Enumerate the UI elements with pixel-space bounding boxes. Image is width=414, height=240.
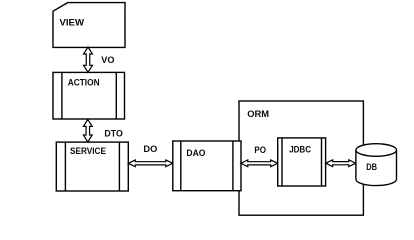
label DB: [366, 162, 377, 173]
label DTO: [104, 128, 122, 139]
svg-text:ORM: ORM: [247, 109, 269, 120]
box ORM: [239, 101, 363, 215]
label VO: [101, 55, 114, 66]
svg-text:DTO: DTO: [104, 128, 122, 139]
svg-text:VIEW: VIEW: [60, 17, 85, 28]
label DAO: [186, 148, 205, 159]
box DAO (predefined process, overlaps ORM left edge): [173, 141, 241, 191]
cylinder DB (database, overlaps ORM right edge): [356, 144, 397, 186]
label ORM: [247, 109, 269, 120]
svg-text:DAO: DAO: [186, 148, 205, 159]
svg-text:VO: VO: [101, 55, 114, 66]
arrow PO (horizontal double open arrow): [241, 160, 278, 167]
arrow JDBC-DB (horizontal double open arrow): [326, 160, 356, 167]
label SERVICE: [70, 146, 106, 157]
label PO: [254, 145, 266, 156]
arrow DTO (vertical double open arrow): [83, 119, 92, 142]
arrow VO (vertical double open arrow): [84, 47, 93, 72]
svg-text:JDBC: JDBC: [289, 145, 311, 156]
box ACTION (predefined process): [53, 72, 125, 119]
box VIEW (card shape, cut top-left corner): [53, 3, 125, 48]
label JDBC: [289, 145, 311, 156]
label DO: [143, 144, 157, 155]
svg-text:DO: DO: [143, 144, 157, 155]
svg-text:PO: PO: [254, 145, 266, 156]
box JDBC (predefined process): [278, 138, 326, 186]
box SERVICE (predefined process): [56, 142, 128, 191]
svg-text:ACTION: ACTION: [68, 78, 100, 89]
svg-text:SERVICE: SERVICE: [70, 146, 106, 157]
label VIEW: [60, 17, 85, 28]
label ACTION: [68, 78, 100, 89]
svg-text:DB: DB: [366, 162, 377, 173]
arrow DO (horizontal double open arrow): [128, 160, 173, 167]
